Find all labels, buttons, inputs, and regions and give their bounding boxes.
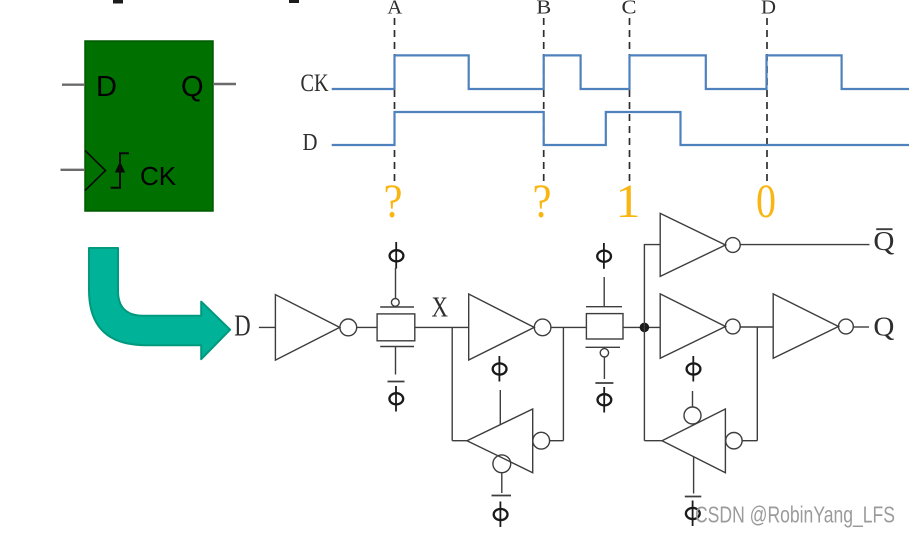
svg-text:1: 1: [616, 175, 641, 228]
svg-text:Q: Q: [873, 226, 895, 256]
wire Q output: [213, 83, 236, 85]
tristate feedback inverter F2: [644, 391, 757, 494]
wire feedback left tap: [451, 327, 453, 440]
svg-text:?: ?: [384, 175, 403, 228]
wire D to inverter I1: [259, 326, 276, 328]
junction node dot: [640, 323, 650, 333]
transmission gate TG1: [377, 268, 415, 375]
dashed cursor line C: [629, 18, 631, 183]
clock input wedge: [85, 150, 106, 190]
inverter I4: [660, 294, 725, 358]
clock label phi (F1 top): [493, 356, 507, 382]
svg-text:?: ?: [533, 175, 552, 228]
clock label phi (TG1 top): [390, 242, 404, 269]
svg-text:B: B: [536, 0, 551, 18]
dashed cursor line A: [394, 18, 396, 183]
clock label phi (F2 top): [687, 356, 701, 382]
inverter I3: [660, 213, 725, 276]
inverter I5: [773, 294, 838, 358]
big teal elbow arrow: [89, 248, 230, 359]
svg-text:C: C: [622, 0, 637, 18]
wire I1 to TG1: [357, 326, 377, 328]
wire TG2 to inverters: [623, 326, 660, 328]
wire I5 to Q: [853, 326, 869, 328]
wire feedback right tap stage2: [756, 327, 758, 441]
wire CK input: [61, 169, 86, 171]
D flip-flop symbol U1 (green box): [85, 41, 213, 211]
svg-text:CSDN @RobinYang_LFS: CSDN @RobinYang_LFS: [695, 502, 895, 528]
clock label phi-bar (TG2 bottom): [595, 383, 613, 413]
inverter I2: [469, 294, 535, 360]
svg-text:CK: CK: [140, 161, 177, 191]
transmission gate TG2: [586, 277, 624, 379]
svg-text:D: D: [761, 0, 776, 18]
wire TG1 to inverter I2 (node X): [415, 326, 469, 328]
wire D input: [62, 83, 85, 85]
D waveform: [332, 112, 909, 145]
svg-text:D: D: [303, 130, 318, 156]
wire node down to F2: [643, 327, 645, 440]
svg-text:CK: CK: [301, 70, 329, 97]
svg-text:X: X: [432, 292, 449, 324]
svg-text:D: D: [234, 309, 250, 343]
wire I3 to Qbar: [740, 244, 869, 246]
svg-text:0: 0: [756, 175, 776, 228]
cropped title text fragment right: [289, 0, 299, 3]
dashed cursor line B: [543, 18, 545, 183]
wire feedback right tap: [562, 327, 564, 440]
svg-text:Q: Q: [181, 71, 204, 103]
clock label phi-bar (TG1 bottom): [388, 382, 405, 412]
cropped title text fragment left: [113, 0, 123, 4]
wire I2 to TG2: [551, 326, 587, 328]
clock label phi (TG2 top): [597, 243, 611, 269]
CK waveform: [332, 55, 909, 89]
tristate feedback inverter F1: [452, 390, 563, 493]
dashed cursor line D: [766, 18, 768, 183]
svg-text:A: A: [387, 0, 403, 18]
output label Qbar: [873, 226, 895, 256]
clock label phi-bar (F1 bottom): [492, 496, 512, 528]
svg-text:D: D: [96, 71, 117, 103]
inverter I1: [275, 295, 339, 361]
clock label phi-bar (F2 bottom): [685, 497, 702, 527]
wire I4 to I5: [740, 326, 773, 328]
svg-text:Q: Q: [873, 311, 895, 341]
wire node up to I3: [644, 245, 660, 328]
rising edge icon: [111, 153, 130, 187]
